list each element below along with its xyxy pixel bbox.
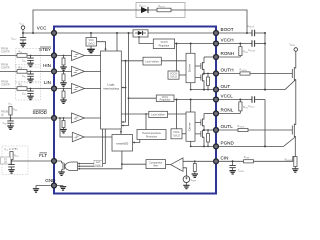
svg-text:CSD: CSD [3, 122, 8, 126]
wire BOOT external [219, 32, 252, 34]
svg-text:DBOOT: DBOOT [139, 4, 147, 8]
wire SD to second buffer [60, 118, 72, 137]
svg-text:filter: filter [153, 165, 158, 168]
wire VCC rail internal [57, 32, 213, 34]
wire SD2 to smartSD [84, 136, 112, 138]
ground GND internal [57, 186, 66, 191]
box Overtemperature Protection [137, 130, 166, 140]
svg-text:RBOOT: RBOOT [159, 5, 167, 9]
pulldown resistor LIN [60, 88, 66, 104]
bootstrap diode box [136, 3, 185, 18]
wire UVLO LS to driver [182, 133, 186, 135]
wire OUT external [219, 80, 296, 90]
svg-text:logic: logic [96, 164, 102, 167]
svg-text:-: - [179, 160, 180, 164]
supply VBUS [290, 44, 298, 63]
input network STBY [0, 48, 51, 68]
svg-text:VBUS: VBUS [290, 44, 296, 48]
comparator [171, 158, 183, 172]
svg-text:Level shifter: Level shifter [151, 113, 165, 116]
resistor RG(LS) [219, 125, 292, 132]
ground GND external [33, 186, 51, 193]
diode DBOOT [136, 4, 157, 13]
wire RONL internal [204, 113, 213, 115]
svg-text:μC: μC [1, 113, 4, 116]
wire logic to smartSD [120, 129, 122, 135]
comparator input pulldown resistor [192, 160, 198, 177]
svg-text:CILIM: CILIM [238, 170, 244, 174]
power mosfet low [292, 119, 296, 137]
pin HIN [52, 69, 57, 74]
svg-text:RG(HS): RG(HS) [240, 68, 247, 72]
FLT external network [1, 146, 51, 175]
svg-text:RON: RON [243, 106, 248, 110]
svg-text:CIN: CIN [221, 156, 229, 161]
ground UVLO [87, 46, 95, 53]
resistor RG(HS) [219, 68, 292, 75]
svg-text:RSHUNT: RSHUNT [285, 159, 294, 163]
box level shifter LS [149, 111, 168, 117]
wire VCCL external [219, 99, 252, 101]
wire logic to LS HS [121, 60, 143, 62]
small label box on fault wires [94, 160, 102, 167]
capacitor C filter [229, 161, 243, 174]
resistor RON low [239, 99, 248, 114]
box VCC UVLO [86, 38, 97, 47]
svg-text:+: + [179, 168, 181, 172]
wire PGND internal [191, 145, 213, 147]
pulldown resistor STBY [60, 55, 66, 71]
output mosfet LS source (upper) [195, 114, 204, 131]
svg-text:UVLO: UVLO [170, 76, 177, 79]
internal bootstrap diode [135, 31, 146, 35]
OR gate inputs [78, 129, 106, 165]
pin VCC [52, 31, 57, 36]
node smartSD bottom [121, 163, 123, 165]
output mosfet LS sink (lower) [195, 130, 204, 147]
svg-text:VREF: VREF [191, 179, 197, 183]
wire VCCL regulator to pin [174, 99, 213, 101]
internal bootstrap diode box [133, 30, 148, 37]
capacitor CVCCL [248, 96, 265, 108]
svg-text:RONL: RONL [221, 108, 234, 113]
pin OUTH [214, 71, 219, 76]
wire VCCL to VCCL UVLO [176, 100, 178, 129]
pin OUTL [214, 128, 219, 133]
wire low mosfet source to PGND [284, 137, 296, 147]
wire bootstrap caps to OUT node [264, 33, 266, 90]
wire logic to LS LS [121, 113, 149, 115]
power mosfet high [292, 62, 296, 81]
wire rail status column B [121, 32, 129, 127]
svg-text:GND: GND [45, 178, 56, 183]
svg-text:CONTR.: CONTR. [1, 51, 10, 54]
box driver HS [186, 53, 195, 82]
input network LIN [0, 81, 51, 101]
pin STBY [52, 53, 57, 58]
wire UVLO HS to driver [179, 74, 186, 76]
svg-text:Driver: Driver [188, 122, 192, 130]
wire driver HS bottom to OUT [190, 83, 192, 90]
wire rail status column A [121, 60, 126, 123]
capacitor CVCC [11, 33, 26, 47]
capacitor CVCCH [248, 40, 265, 52]
wire rail to UVLO [90, 33, 92, 38]
wire overtemp input [145, 114, 147, 130]
pin SD/OD [52, 116, 57, 121]
box driver LS [186, 112, 195, 141]
svg-text:VCC: VCC [37, 26, 47, 31]
box comparator filter [146, 160, 166, 169]
FLT open drain mosfet [57, 161, 64, 172]
svg-text:VCCL: VCCL [221, 94, 234, 99]
svg-text:PGND: PGND [221, 141, 235, 146]
svg-text:HIN: HIN [43, 63, 51, 68]
svg-text:Regulator: Regulator [160, 99, 171, 102]
wire RDRH internal [204, 56, 213, 58]
box smartSD [112, 135, 133, 152]
wire OUT internal [191, 89, 213, 91]
pin FLT [52, 159, 57, 164]
svg-text:RONH: RONH [221, 51, 235, 56]
schmitt buffer STBY [72, 51, 85, 61]
svg-text:LIN: LIN [44, 80, 51, 85]
pin OUT [214, 87, 219, 92]
svg-text:CONTR.: CONTR. [1, 66, 10, 69]
svg-text:VCC or STBY: VCC or STBY [4, 148, 18, 151]
input network HIN [0, 63, 51, 83]
pin VCCL [214, 97, 219, 102]
schmitt buffer SD2 [72, 132, 84, 141]
svg-text:Driver: Driver [188, 64, 192, 72]
resistor RON high [239, 43, 248, 58]
schmitt buffer SD [72, 113, 85, 123]
wire overtemp to smartSD [133, 140, 140, 144]
svg-text:RILIM: RILIM [244, 156, 250, 160]
output mosfet HS sink (lower) [195, 74, 204, 90]
pin RDRH [214, 55, 219, 60]
wire VCCH regulator to pin [175, 43, 213, 45]
wire VCCH to driver top [190, 44, 192, 54]
wire VCCH external [219, 43, 252, 45]
svg-text:smartSD: smartSD [116, 141, 129, 145]
svg-text:OUTL: OUTL [221, 124, 234, 129]
wire OUTL internal [204, 129, 213, 131]
OR gate FLT [65, 162, 77, 171]
svg-text:BOOT: BOOT [221, 27, 234, 32]
junction top feed [32, 32, 34, 34]
wire VCCL cap to PGND node [264, 100, 266, 147]
box VCCL regulator [156, 95, 174, 102]
wire RONL external [219, 113, 240, 115]
box level shifter HS [143, 57, 161, 65]
box Logic interlocking [101, 51, 122, 129]
svg-text:μC: μC [4, 161, 7, 164]
pin LIN [52, 86, 57, 91]
wire CIN internal to comparator [183, 160, 213, 162]
svg-text:CVCC: CVCC [11, 38, 17, 42]
svg-text:CBOOT: CBOOT [248, 25, 256, 29]
schmitt buffer LIN [72, 84, 85, 94]
wire VCC external [23, 32, 51, 34]
resistor R filter [244, 156, 296, 163]
wire CIN external [219, 160, 243, 162]
svg-text:OUTH: OUTH [221, 68, 234, 73]
pulldown resistor SD [60, 117, 66, 133]
svg-text:STBY: STBY [39, 47, 51, 52]
wire comparator out [166, 164, 171, 166]
wire comparator filter to smartSD line [122, 163, 146, 165]
pin BOOT [214, 31, 219, 36]
wire VCCL to driver top [190, 100, 192, 113]
wire UVLO to logic [97, 42, 106, 50]
VCC supply terminal [20, 22, 25, 33]
svg-text:VCCH: VCCH [221, 38, 234, 43]
svg-text:VCC: VCC [20, 22, 25, 26]
wire VCC top bootstrap feed [33, 10, 247, 33]
resistor RBOOT [157, 5, 185, 12]
capacitor CBOOT [248, 25, 266, 36]
svg-text:CVCCL: CVCCL [248, 105, 255, 109]
wire status arrow mid [121, 87, 126, 89]
shunt resistor [285, 157, 299, 173]
wire PGND external [219, 145, 283, 147]
svg-text:SD/OD: SD/OD [32, 110, 47, 115]
svg-text:CONTR.: CONTR. [1, 84, 10, 87]
svg-text:RON: RON [243, 51, 248, 55]
box VCCH regulator [153, 39, 174, 49]
schmitt buffer HIN [72, 66, 85, 76]
svg-text:UVLO: UVLO [173, 134, 180, 137]
svg-text:UVLO: UVLO [88, 43, 95, 46]
IC boundary (blue package outline) [54, 27, 216, 194]
wire VCCL regulator feed [128, 97, 157, 99]
wire OUTH internal [204, 73, 213, 75]
wire driver LS bottom to PGND [190, 141, 192, 146]
internal resistor OUTL-PGND [207, 129, 210, 147]
output mosfet HS source (upper) [195, 57, 204, 74]
box VCCL UVLO [171, 129, 182, 139]
svg-text:OUT: OUT [221, 84, 231, 89]
pin GND [52, 183, 57, 188]
wire VCCH to VCCH UVLO [176, 44, 178, 72]
wire low mosfet source to shunt [294, 137, 296, 157]
pin VCCH [214, 41, 219, 46]
wire diode box to VCCH regulator [139, 37, 153, 44]
pulldown resistor HIN [60, 71, 66, 87]
svg-text:RG(LS): RG(LS) [238, 125, 245, 129]
svg-text:Regulator: Regulator [159, 44, 170, 47]
input network SD [0, 103, 51, 130]
svg-text:interlocking: interlocking [103, 87, 119, 91]
svg-text:RSD: RSD [13, 109, 18, 113]
wire RDRH external [219, 56, 240, 58]
box VCCH UVLO [168, 71, 179, 79]
reference source VREF [183, 168, 197, 189]
svg-text:Protection: Protection [146, 135, 158, 138]
svg-text:CVCCH: CVCCH [248, 49, 256, 53]
wire LS HS to driver [161, 60, 186, 62]
wire LS LS to driver [168, 113, 187, 115]
wire phase node [295, 80, 297, 120]
internal resistor OUTH-OUT [207, 73, 210, 91]
svg-text:Level shifter: Level shifter [145, 60, 159, 63]
wire rail to logic top [116, 33, 118, 51]
pin CIN [214, 159, 219, 164]
pin RONL [214, 111, 219, 116]
svg-text:FLT: FLT [39, 153, 47, 158]
pin PGND [214, 144, 219, 149]
